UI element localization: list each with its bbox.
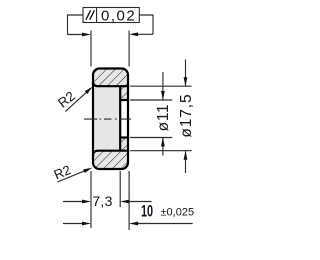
radius leader R2 lower [57,171,85,182]
dim 10 line left [63,223,83,225]
svg-text:7,3: 7,3 [92,193,112,209]
dia11 dimension line top [162,72,164,100]
dia11 bottom arrow [161,138,165,147]
frame leader right arrow [129,32,138,36]
hatched cut area upper [93,69,128,101]
extension line step face bottom [119,171,121,207]
dim 7,3 right arrow [120,200,129,204]
dim 10 left arrow [82,222,91,226]
radius label R2 upper [55,88,78,110]
part body interior fill [93,69,128,170]
svg-text:10: 10 [141,201,153,220]
frame leader right [138,15,154,34]
extension line left face bottom [90,171,92,228]
dim 7,3 line right [129,201,152,203]
extension line right face bottom [128,171,130,230]
bore bottom edge [120,136,128,138]
dia17.5 extension line bottom [130,150,192,152]
svg-text:0,02: 0,02 [101,7,136,24]
dia17.5 dimension line top [185,60,187,86]
tolerance frame [83,8,139,23]
dim 7,3 left arrow [82,200,91,204]
dia11 extension line top [130,99,172,101]
dia17.5 bottom arrow [184,151,188,160]
dia11 extension line bottom [130,137,172,139]
extension line left face top [90,31,92,67]
dia17.5 top arrow [184,77,188,86]
parallelism symbol [86,10,95,19]
dim 10 right arrow [129,222,138,226]
part outer outline [93,69,128,170]
radius arrow R2 lower [83,168,92,173]
frame leader left [68,15,84,35]
dim 10 line right [137,223,193,225]
counterbore bottom edge line [93,151,128,156]
dim 7,3 line left [63,201,83,203]
svg-text:±0,025: ±0,025 [161,206,195,218]
counterbore top edge line [93,81,128,86]
dia17.5 extension line top [130,85,191,87]
frame leader left arrow [82,33,91,37]
radius leader R2 upper [65,91,87,111]
svg-text:ø11: ø11 [155,104,172,132]
dia11 dimension line bottom [162,138,164,156]
extension line right face top [128,31,130,67]
bore see-through window [121,101,127,137]
hatched cut area lower [93,138,128,170]
centerline [84,118,131,120]
dia17.5 dimension line bottom [185,151,187,173]
radius arrow R2 upper [85,87,93,94]
radius label R2 lower [52,162,73,182]
svg-text:ø17,5: ø17,5 [178,94,195,138]
dia11 top arrow [161,91,165,100]
step face edge [119,86,121,151]
bore top edge [120,99,128,101]
